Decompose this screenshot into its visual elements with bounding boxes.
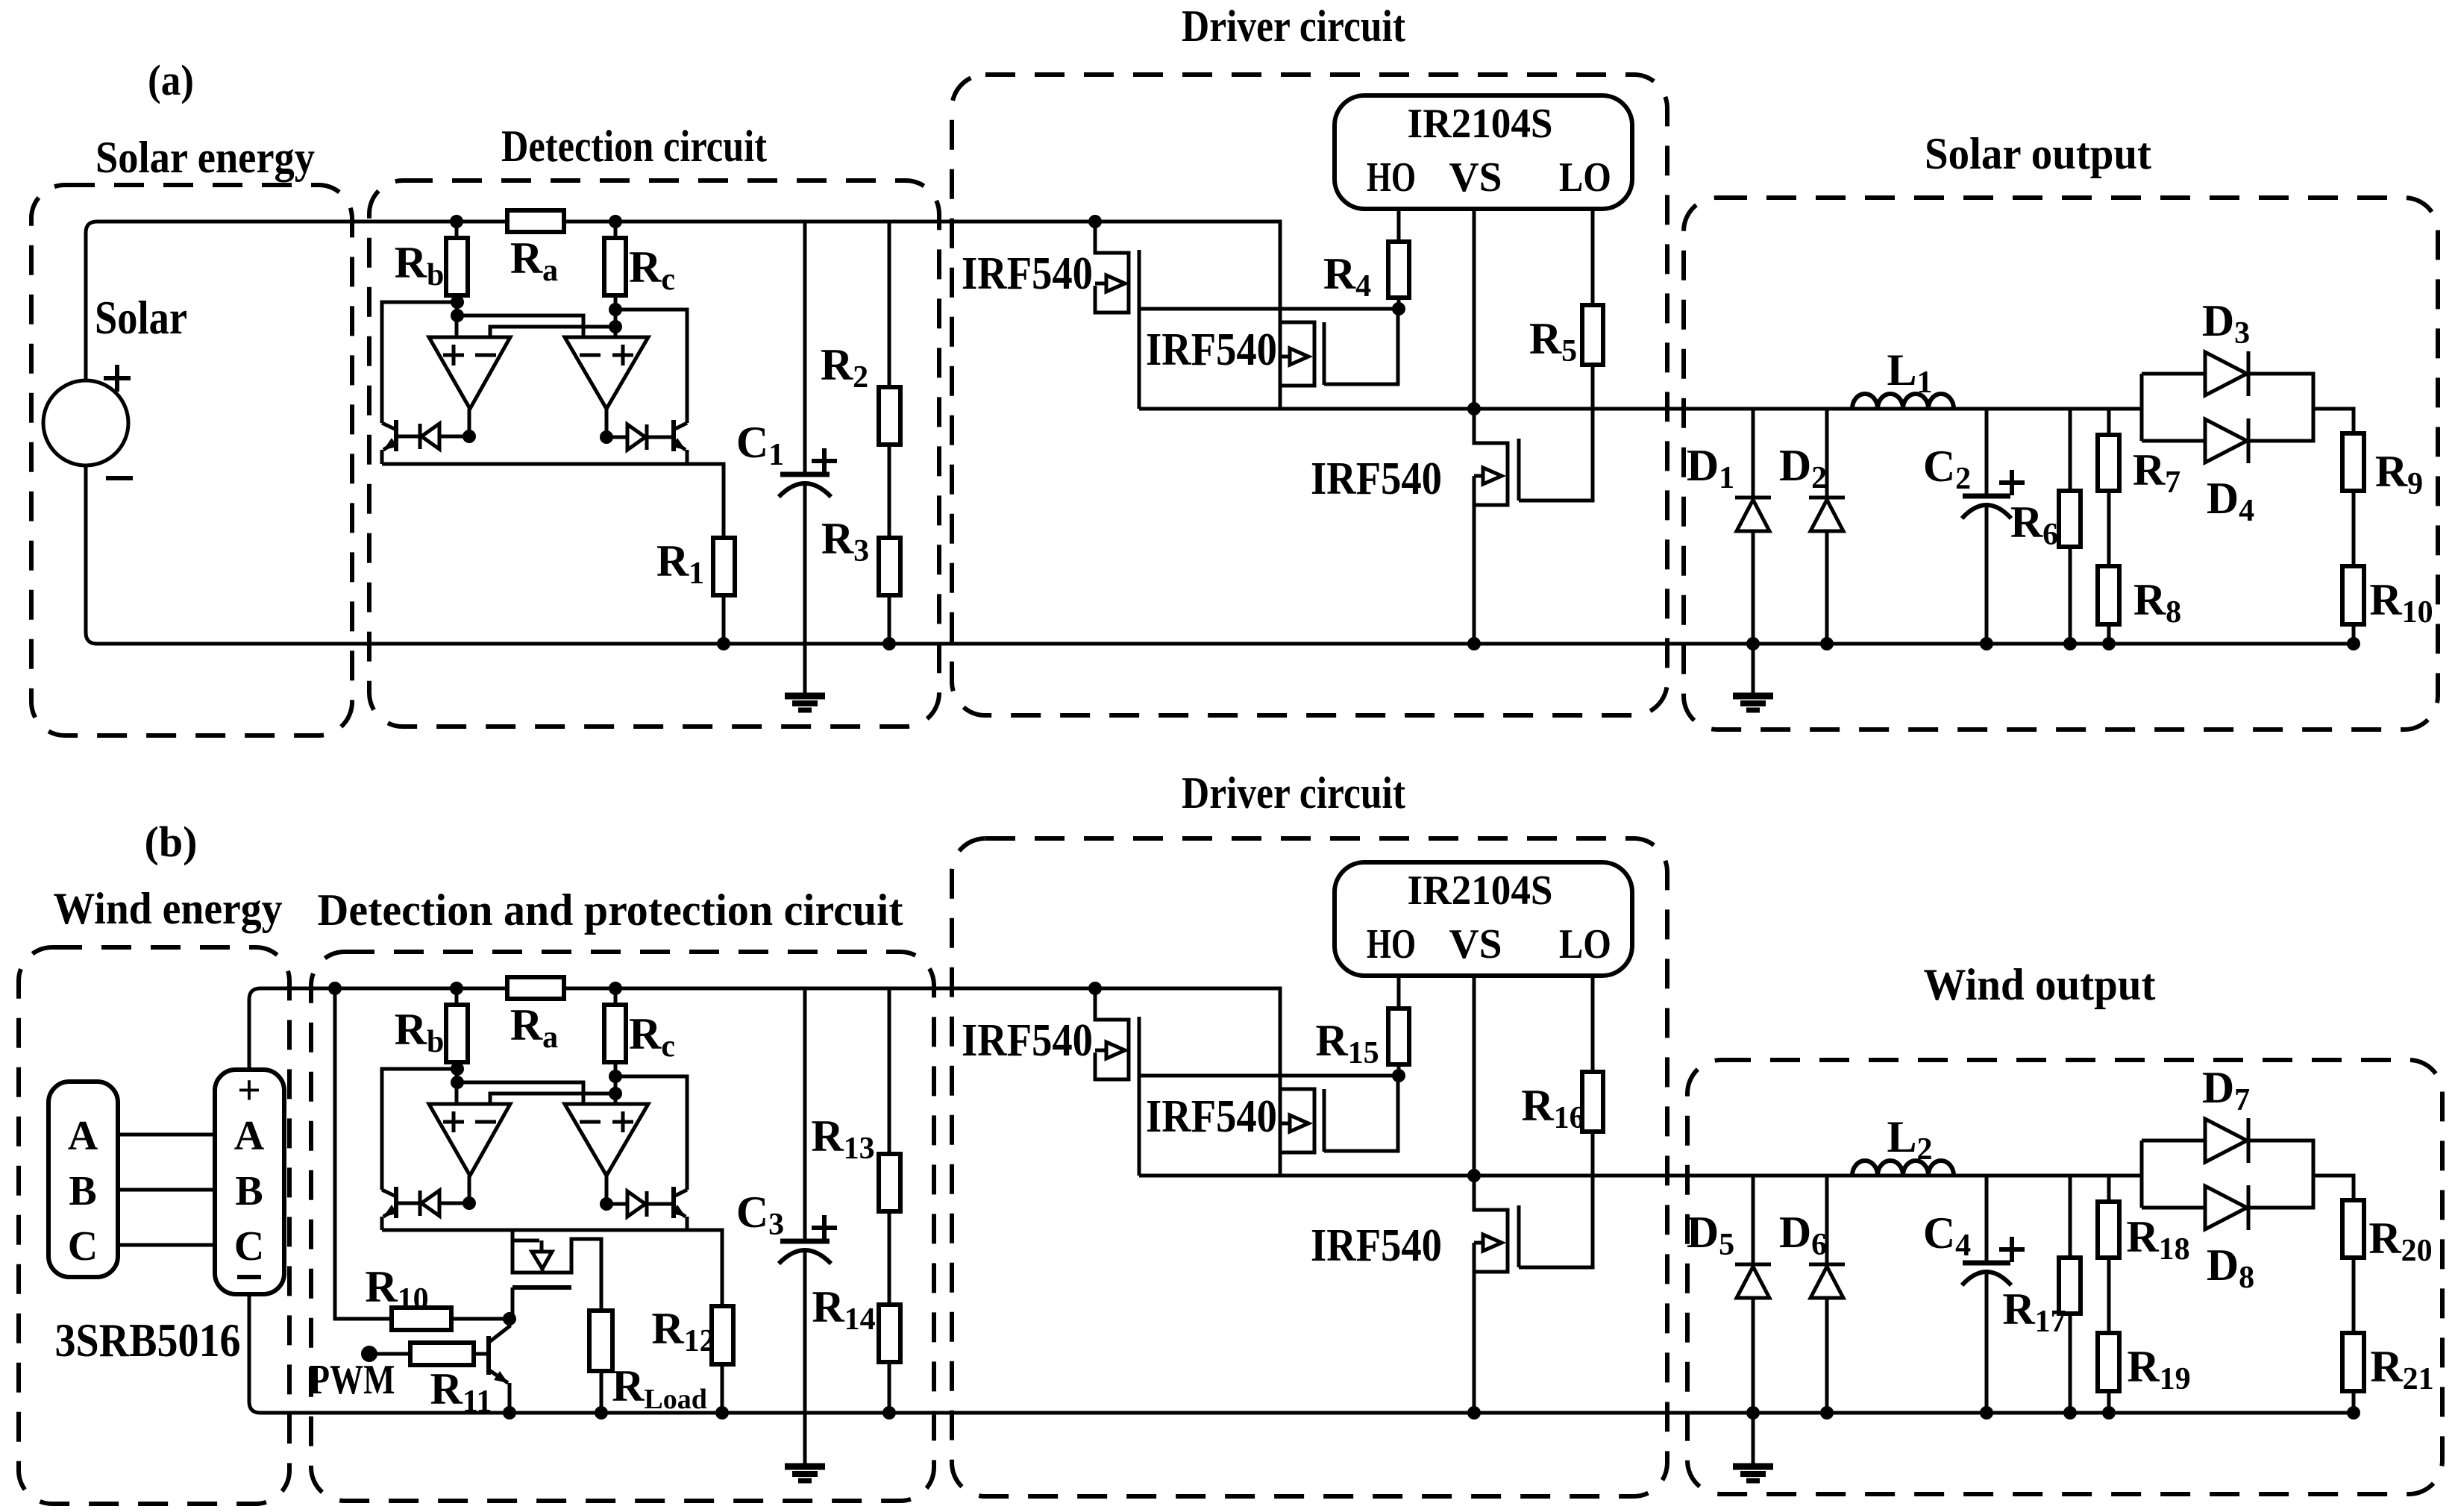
ground symbol below D5 <box>1733 1464 1773 1470</box>
svg-text:L2: L2 <box>1887 1112 1932 1167</box>
transistor Q5 IRF540 high-side #2 (b): body <box>1280 1089 1314 1152</box>
ground symbol below D1 <box>1733 693 1773 700</box>
wire left feedback loop (b) <box>382 1069 457 1190</box>
svg-text:PWM: PWM <box>310 1357 395 1403</box>
wire ground bus (b) from - terminal <box>249 1294 2354 1413</box>
resistor R21 <box>2342 1333 2364 1391</box>
svg-text:IR2104S: IR2104S <box>1408 868 1553 914</box>
wire left op-amp output stub <box>468 409 471 436</box>
node dot Rc input node <box>609 320 622 333</box>
capacitor C1 curved plate <box>779 483 831 497</box>
svg-text:D6: D6 <box>1779 1208 1827 1262</box>
inductor L1 <box>1852 394 1954 409</box>
svg-text:LO: LO <box>1559 154 1611 201</box>
svg-text:R10: R10 <box>365 1262 428 1317</box>
node dot Rb bottom feedback (b) <box>451 1062 464 1076</box>
wire R21 bottom to ground rail <box>2352 1391 2356 1413</box>
svg-text:IRF540: IRF540 <box>962 248 1093 299</box>
node dot Rb top (b) <box>450 982 463 995</box>
wire block to R9 column <box>2313 409 2354 433</box>
wire diode DR1 cathode to transistor base <box>647 436 674 439</box>
svg-text:IRF540: IRF540 <box>1146 1091 1277 1142</box>
resistor Rb (b) with leads <box>455 988 459 1104</box>
node dot VS junction (b) <box>1467 1169 1481 1182</box>
wire LO pin to R16 (b) <box>1591 976 1595 1072</box>
resistor Ra (b) <box>507 977 564 999</box>
ground symbol below C1 <box>785 693 825 700</box>
svg-text:R14: R14 <box>812 1282 875 1337</box>
node dot Rb bottom feedback <box>451 295 464 309</box>
transistor QL (a) base bar <box>394 420 398 451</box>
svg-text:Driver circuit: Driver circuit <box>1182 768 1405 818</box>
resistor R8 <box>2098 566 2119 624</box>
svg-text:Wind output: Wind output <box>1924 960 2156 1009</box>
wire left feedback loop (Rb node to left transistor collector) <box>382 302 457 423</box>
capacitor C4 top plate <box>1963 1261 2010 1266</box>
node dot Rc input node (b) <box>609 1087 622 1100</box>
resistor R9 <box>2342 433 2364 491</box>
diode DL2 (b) <box>418 1191 422 1216</box>
op-amp U1 left (a) <box>429 337 510 409</box>
node dot RLoad ground <box>595 1406 608 1420</box>
svg-text:D7: D7 <box>2202 1063 2250 1117</box>
wire Q4 gate to R15 node (b) <box>1139 1074 1399 1078</box>
transistor Q2 gate bar <box>1323 322 1326 385</box>
svg-text:D3: D3 <box>2202 296 2250 351</box>
svg-text:R11: R11 <box>430 1364 492 1419</box>
svg-text:VS: VS <box>1449 921 1502 967</box>
plus sign at C2 <box>1999 470 2025 495</box>
transistor Q3 arrow <box>1474 474 1483 478</box>
transistor Q3 left edge segment <box>1473 476 1476 505</box>
wire right op-amp output to diode DR1 <box>606 436 629 439</box>
node dot PWM branch <box>328 982 342 995</box>
wire capacitor C1 bottom to ground symbol <box>803 485 807 695</box>
svg-text:Detection circuit: Detection circuit <box>501 122 767 171</box>
svg-text:R5: R5 <box>1529 314 1577 368</box>
diode D1 column <box>1752 409 1755 695</box>
svg-text:D1: D1 <box>1687 441 1734 495</box>
diode D4 <box>2205 419 2247 462</box>
transistor Q2 IRF540 high-side #2 (a): body <box>1280 322 1314 386</box>
resistor R18 R19 column <box>2107 1176 2111 1413</box>
wire right emitter down to sense bus (b) <box>686 1217 689 1230</box>
wire left op-amp output stub (b) <box>468 1176 471 1203</box>
svg-text:R1: R1 <box>656 536 704 591</box>
wire right op-amp output stub (b) <box>605 1176 609 1204</box>
transistor Q7 gate bar <box>512 1285 571 1290</box>
resistor Ra (a) <box>507 210 564 232</box>
node dot Q3 source at ground (a) <box>1467 637 1481 650</box>
svg-text:C3: C3 <box>736 1188 784 1242</box>
node dot R1 ground <box>717 637 730 650</box>
inductor L2 <box>1852 1161 1954 1176</box>
svg-text:D8: D8 <box>2207 1240 2254 1295</box>
wire phase A <box>118 1133 215 1137</box>
node dot D1 ground <box>1746 637 1760 650</box>
svg-text:R9: R9 <box>2375 447 2423 501</box>
Solar output dashed box <box>1684 198 2438 730</box>
diode D7 <box>2205 1119 2247 1162</box>
svg-text:RLoad: RLoad <box>612 1361 707 1415</box>
node dot Rc top <box>609 215 622 228</box>
node dot R17 ground <box>2063 1406 2077 1420</box>
svg-text:IRF540: IRF540 <box>1146 324 1277 375</box>
node dot right op-amp output (b) <box>600 1197 613 1211</box>
wire R12 bottom to ground bus (b) <box>721 1364 724 1413</box>
wire R4 bottom to gate node <box>1397 298 1401 309</box>
transistor Q3 IRF540 low-side (a): drain+body+source <box>1474 409 1508 644</box>
capacitor C2 column <box>1985 409 1989 644</box>
transistor Q5 arrow <box>1280 1122 1290 1126</box>
wire R10 right lead to node <box>451 1317 510 1321</box>
resistor R20 <box>2342 1200 2364 1258</box>
wire HO pin to R4 (a) <box>1397 209 1401 242</box>
transistor Q8 (b) base bar <box>486 1336 491 1375</box>
resistor R4 (a) <box>1388 242 1409 298</box>
svg-text:C: C <box>234 1223 264 1270</box>
diode DR2 (b) <box>645 1191 649 1217</box>
svg-text:C: C <box>68 1223 98 1270</box>
transistor Q6 left edge segment <box>1473 1243 1476 1272</box>
rectifier terminal box +ABC- <box>215 1070 284 1294</box>
wire PWM branch from top bus to R10 (b) <box>335 988 392 1319</box>
op-amp U5 right (b) <box>565 1104 648 1176</box>
svg-text:R3: R3 <box>821 514 869 568</box>
node dot R6 ground <box>2063 637 2077 650</box>
node dot Rc bottom feedback <box>609 303 622 316</box>
PWM input terminal dot <box>361 1346 377 1362</box>
capacitor C2 curved plate <box>1962 505 2011 518</box>
diode block D3 D4 rectangle (a) <box>2142 374 2313 441</box>
node dot R19 ground <box>2102 1406 2116 1420</box>
Wind energy dashed box <box>19 947 289 1504</box>
svg-text:C1: C1 <box>736 418 784 472</box>
node dot R10/gate/collector (b) <box>503 1312 516 1326</box>
transistor Q7 arrow (down) <box>532 1252 552 1269</box>
svg-text:Rb: Rb <box>395 1005 445 1059</box>
wire ground bus (a) <box>86 465 2354 644</box>
node dot Rc bottom feedback (b) <box>609 1070 622 1083</box>
wire block to R20 column <box>2313 1176 2354 1200</box>
plus sign of solar source <box>104 365 131 392</box>
resistor R16 (b) <box>1582 1072 1603 1132</box>
node dot R8 ground <box>2102 637 2116 650</box>
svg-text:VS: VS <box>1449 154 1502 201</box>
resistor R7 <box>2098 435 2119 491</box>
transistor Q8 collector riser <box>489 1319 510 1342</box>
wire phase B <box>118 1188 215 1192</box>
diode D6 column <box>1825 1176 1829 1413</box>
node dot R21 ground <box>2347 1406 2360 1420</box>
resistor R2 (a) <box>879 387 900 445</box>
capacitor C3 top plate <box>780 1239 830 1244</box>
wire top bus (b) from + terminal, corner down to VS node <box>249 988 1280 1176</box>
resistor R13 (b) <box>879 1154 900 1211</box>
transistor QR (a) base bar <box>671 420 676 451</box>
svg-text:C4: C4 <box>1923 1208 1971 1263</box>
wire Q5 gate riser to R15 node (b) <box>1324 1076 1398 1151</box>
svg-text:+: + <box>237 1067 261 1114</box>
svg-text:D2: D2 <box>1779 441 1827 495</box>
resistor RLoad column <box>600 1371 603 1413</box>
svg-text:D5: D5 <box>1687 1208 1734 1262</box>
resistor R5 (a) <box>1582 305 1603 365</box>
resistor R17 column <box>2069 1176 2072 1413</box>
wire capacitor C3 column top (b) <box>803 988 807 1241</box>
transistor QL (b) emitter with arrow <box>383 1208 396 1217</box>
wire LO pin to R5 (a) <box>1591 209 1595 305</box>
resistor R7 R8 column <box>2107 409 2111 644</box>
wire R10 bottom to ground rail <box>2352 624 2356 644</box>
svg-text:3SRB5016: 3SRB5016 <box>55 1314 241 1367</box>
svg-text:HO: HO <box>1367 154 1416 201</box>
transistor Q4 gate/source bar down to VS bus (b) <box>1138 1017 1141 1176</box>
transistor Q7 top edge <box>512 1239 539 1243</box>
node dot R12 ground <box>715 1406 729 1420</box>
transistor QR (b) collector <box>674 1190 687 1196</box>
resistor R10 (protection b) <box>392 1308 451 1330</box>
Driver circuit dashed box (a) <box>952 75 1667 715</box>
svg-text:IRF540: IRF540 <box>1311 454 1442 504</box>
node dot R10 ground <box>2347 637 2360 650</box>
svg-text:Rc: Rc <box>629 242 675 297</box>
svg-text:Wind energy: Wind energy <box>54 884 283 933</box>
wire R1 bottom to ground bus <box>722 595 726 644</box>
resistor R15 (b) <box>1388 1008 1409 1064</box>
transistor Q8 emitter with arrow <box>489 1370 508 1383</box>
transistor QL (a) emitter with arrow <box>383 442 396 450</box>
plus sign at C3 <box>812 1215 837 1240</box>
wire mid bus VS node (b) <box>1139 1174 2142 1178</box>
svg-text:Driver circuit: Driver circuit <box>1182 1 1405 51</box>
svg-text:R4: R4 <box>1323 249 1371 304</box>
svg-text:(b): (b) <box>145 818 198 866</box>
node dot VS junction (a) <box>1467 402 1481 415</box>
wire R2 R3 column (a) <box>888 222 891 644</box>
wire DR2 cathode to transistor base (b) <box>647 1202 674 1206</box>
resistor R3 (a) <box>879 538 900 595</box>
node dot left op-amp output (b) <box>463 1196 476 1210</box>
node dot D5 ground <box>1746 1406 1760 1420</box>
wire left emitter down to sense bus <box>380 450 384 464</box>
diode block D7 D8 rectangle (b) <box>2142 1141 2313 1208</box>
resistor R1 (a) <box>713 538 735 595</box>
diode D8 <box>2205 1186 2247 1229</box>
transistor QR (b) base bar <box>671 1187 676 1218</box>
wire right emitter down to sense bus <box>686 450 689 464</box>
resistor Rb (a) with leads <box>455 222 459 337</box>
wire cross-coupling upper (b) <box>457 1082 583 1104</box>
diode D3 <box>2205 352 2247 395</box>
node dot first IRF540 drain <box>1088 215 1102 228</box>
capacitor C1 top plate <box>780 472 830 477</box>
op-amp U2 right (a) <box>565 337 648 409</box>
node dot Q6 source at ground (b) <box>1467 1406 1481 1420</box>
node dot R3 ground <box>882 637 896 650</box>
diode DR1 (right, cathode-right) <box>645 424 649 450</box>
Wind output dashed box <box>1687 1060 2442 1494</box>
transistor Q5 gate bar <box>1323 1089 1326 1152</box>
transistor Q6 arrow <box>1474 1241 1483 1245</box>
transistor QR (a) emitter with arrow <box>674 442 686 450</box>
svg-text:R15: R15 <box>1315 1016 1379 1070</box>
svg-text:LO: LO <box>1559 921 1611 967</box>
node dot left op-amp output <box>463 430 476 443</box>
svg-text:B: B <box>69 1168 96 1214</box>
transistor Q7 arrow stem upper <box>540 1240 544 1252</box>
transistor Q1 arrow <box>1095 282 1106 286</box>
transistor Q6 IRF540 low-side (b): drain+body+source <box>1474 1176 1508 1413</box>
svg-text:Solar energy: Solar energy <box>95 133 315 182</box>
resistor R18 <box>2098 1202 2119 1258</box>
svg-text:IR2104S: IR2104S <box>1408 101 1553 147</box>
wire phase C <box>118 1243 215 1247</box>
svg-text:R8: R8 <box>2133 575 2181 630</box>
Detection circuit dashed box <box>369 181 939 727</box>
op-amp U4 left (b) <box>429 1104 510 1176</box>
wire sense bus to R1 (a) <box>382 464 724 538</box>
wire Q7 gate down to R10 node (b) <box>511 1287 515 1319</box>
minus sign of solar source <box>106 476 133 480</box>
transistor QL (b) collector <box>382 1190 396 1196</box>
node dot Rb input node <box>451 309 464 322</box>
svg-text:Rb: Rb <box>395 238 445 292</box>
diode DL2 anode wire (b) <box>439 1202 469 1205</box>
transistor Q2 arrow <box>1280 355 1290 359</box>
svg-text:Ra: Ra <box>510 1000 558 1055</box>
wire cross-coupling upper (Rb node to right op-amp -) <box>457 316 583 337</box>
plus sign at C1 <box>812 448 837 474</box>
svg-text:C2: C2 <box>1923 442 1971 496</box>
svg-text:Ra: Ra <box>510 233 558 288</box>
node dot C2 ground <box>1980 637 1993 650</box>
svg-text:A: A <box>68 1113 98 1159</box>
wire HO pin to R15 (b) <box>1397 976 1401 1008</box>
transistor QR (b) emitter with arrow <box>674 1208 686 1217</box>
wire right op-amp output stub <box>605 409 609 437</box>
transistor Q3 gate bar <box>1517 439 1521 501</box>
transistor Q7 arrow stem lower <box>541 1267 545 1273</box>
wire PWM to R11 <box>369 1352 411 1356</box>
node dot R4 bottom (a) <box>1392 302 1405 316</box>
wire cross-coupling lower (Rc node to left op-amp -) <box>490 327 615 337</box>
wire Q2 gate riser to R4 node (a) <box>1324 309 1398 384</box>
Solar energy dashed box <box>31 185 352 735</box>
resistor R19 <box>2098 1333 2119 1391</box>
resistor R11 (b) <box>410 1343 474 1365</box>
node dot R15 bottom (b) <box>1392 1069 1405 1082</box>
transistor Q4 arrow <box>1095 1049 1106 1053</box>
transistor QL (b) base bar <box>394 1187 398 1218</box>
node dot first IRF540 drain (b) <box>1088 982 1102 995</box>
svg-text:R19: R19 <box>2127 1342 2190 1396</box>
wire capacitor C1 column top (a) <box>803 222 807 474</box>
transistor Q7 protection p-MOSFET body <box>512 1230 601 1311</box>
svg-text:IRF540: IRF540 <box>962 1015 1093 1066</box>
transistor QR (a) collector <box>674 423 687 430</box>
wire right feedback loop (Rc node to right transistor collector) <box>615 310 687 423</box>
wire R13 R14 column (b) <box>888 988 891 1413</box>
svg-text:R13: R13 <box>811 1111 874 1166</box>
svg-text:R17: R17 <box>2002 1284 2066 1339</box>
svg-text:R21: R21 <box>2370 1342 2433 1396</box>
resistor R14 (b) <box>879 1305 900 1362</box>
svg-text:B: B <box>235 1168 263 1214</box>
wire right op-amp output to diode DR2 (b) <box>606 1202 629 1206</box>
ground symbol below C3 <box>785 1464 825 1470</box>
wire right feedback loop (b) <box>615 1076 687 1190</box>
node dot Rc top (b) <box>609 982 622 995</box>
node dot Q8 emitter ground <box>503 1406 516 1420</box>
resistor R10 (output a) <box>2342 566 2364 624</box>
capacitor C3 curved plate <box>779 1250 831 1264</box>
svg-text:Solar output: Solar output <box>1925 129 2151 178</box>
resistor Rc (a) with leads <box>614 222 618 337</box>
node dot Rb top <box>450 215 463 228</box>
svg-text:R7: R7 <box>2133 445 2180 500</box>
svg-text:R2: R2 <box>821 340 868 395</box>
solar source V1 circle <box>43 380 128 465</box>
diode D2 column <box>1825 409 1829 644</box>
wire left emitter down to sense bus (b) <box>380 1217 384 1230</box>
node dot right op-amp output <box>600 430 613 444</box>
wire R15 bottom to gate node (b) <box>1397 1064 1401 1076</box>
node dot D2 ground <box>1820 637 1834 650</box>
svg-text:IRF540: IRF540 <box>1311 1220 1442 1271</box>
wire capacitor C3 bottom to ground symbol <box>803 1252 807 1465</box>
diode D5 column <box>1752 1176 1755 1465</box>
wire VS pin down to mid bus (b) <box>1473 976 1476 1176</box>
resistor R6 column <box>2069 409 2072 644</box>
node dot R14 ground <box>882 1406 896 1420</box>
wire R16 bottom down across mid bus to Q6 gate (b) <box>1519 1132 1593 1267</box>
svg-text:L1: L1 <box>1887 345 1932 400</box>
resistor Rc (b) with leads <box>614 988 618 1104</box>
svg-text:R20: R20 <box>2368 1214 2432 1268</box>
svg-text:Detection and protection circ: Detection and protection circuit <box>318 885 903 935</box>
svg-text:(a): (a) <box>148 56 194 104</box>
wire Q1 gate to R4 node (a) <box>1139 307 1399 311</box>
wire Q8 emitter to ground bus <box>508 1383 512 1413</box>
capacitor C4 curved plate <box>1962 1272 2011 1285</box>
wire VS pin down to mid bus (a) <box>1473 209 1476 409</box>
svg-text:R10: R10 <box>2369 575 2433 630</box>
node dot D6 ground <box>1820 1406 1834 1420</box>
transistor Q6 gate bar <box>1517 1205 1521 1267</box>
wind generator ABC box <box>48 1082 118 1277</box>
Driver circuit dashed box (b) <box>952 838 1667 1496</box>
transistor Q4 IRF540 high-side #1 (b): drain+body <box>1095 988 1129 1079</box>
wire R11 to Q8 base <box>474 1352 489 1356</box>
wire mid bus VS node (a) <box>1139 407 2142 411</box>
node dot Rb input node (b) <box>451 1076 464 1089</box>
node dot C4 ground <box>1980 1406 1993 1420</box>
wire R5 bottom down across mid bus to Q3 gate (a) <box>1519 365 1593 501</box>
capacitor C2 top plate <box>1963 494 2010 499</box>
transistor Q1 IRF540 high-side #1 (a): drain+body <box>1095 222 1129 313</box>
transistor QL (a) collector <box>382 423 396 430</box>
wire sense bus (b) to R12 <box>382 1230 722 1306</box>
resistor R12 (b) <box>712 1306 733 1364</box>
wire top bus (a) from solar + to driver, corner down to VS node <box>86 222 1280 409</box>
wire R9 to R10 <box>2352 491 2356 566</box>
wire diode DL1 cathode to transistor base <box>396 435 420 439</box>
plus sign at C4 <box>1999 1237 2025 1262</box>
IC U6 IR2104S box (b) <box>1335 862 1632 976</box>
transistor Q1 gate/source bar down to VS bus <box>1138 250 1141 409</box>
svg-text:HO: HO <box>1367 921 1416 967</box>
